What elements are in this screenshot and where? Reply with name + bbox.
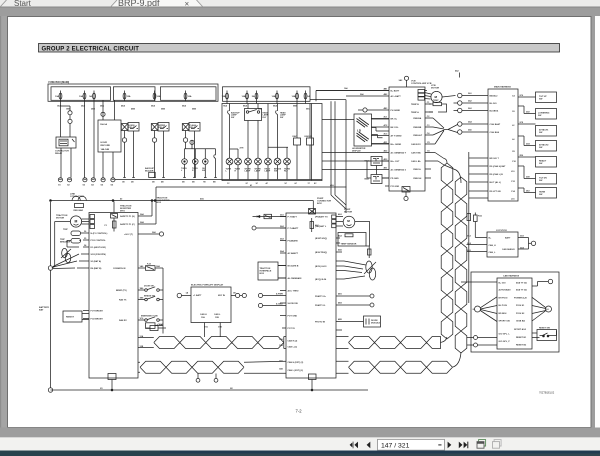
svg-text:F1/T BRUSH: F1/T BRUSH [91,310,104,312]
indicator lamp L3 [203,149,209,178]
svg-text:BOX: BOX [157,202,162,204]
svg-text:SW: SW [231,117,234,119]
svg-text:10A: 10A [157,95,161,98]
hour recorder stems down [103,152,113,178]
ground terminal row [58,178,115,182]
ready switch [536,157,557,168]
svg-text:BL+ CGT: BL+ CGT [391,161,401,163]
svg-text:RLY: RLY [263,117,267,119]
junction circle J5 [458,130,488,134]
svg-text:3EA: 3EA [100,105,105,108]
junction circle J3 [458,108,488,112]
svg-text:RESET SW: RESET SW [539,328,550,330]
svg-text:7EA: 7EA [223,105,228,108]
svg-text:BOX: BOX [317,203,322,205]
wire CAN into chain A [435,153,444,166]
head lamp switch [276,104,287,121]
svg-text:ACC THRO: ACC THRO [288,289,299,292]
svg-text:BH POGI: BH POGI [499,297,508,299]
U2 left pin labels [279,213,304,372]
svg-text:DOOR SW: DOOR SW [144,286,154,288]
svg-text:POGI S2: POGI S2 [516,313,525,315]
terminal T4 [346,303,374,307]
svg-text:BRMF (TX): BRMF (TX) [116,290,127,292]
trip breaker TB1 [63,229,83,236]
svg-text:10A 0A: 10A 0A [100,123,107,126]
indicator lamp L2 [193,149,199,178]
wire fuse F3 drop [93,101,95,177]
capacitor C4 module [146,323,164,329]
svg-text:(BYQ) 8L34: (BYQ) 8L34 [315,278,327,281]
svg-text:10A: 10A [55,95,59,98]
svg-text:5EA: 5EA [151,105,156,108]
fuse F3 [89,91,95,102]
U2 right pin labels [315,213,343,324]
svg-text:5A: 5A [307,95,310,98]
reset switch [532,328,557,341]
wire fan to battery [53,254,79,269]
svg-text:10A: 10A [292,95,296,98]
U7 right terminals [231,293,246,297]
battery bus wire [50,202,52,388]
drop foot ticks on bus [123,177,217,179]
U3 left pin ticks [316,91,389,187]
svg-text:CONTROLLER VCB: CONTROLLER VCB [411,83,432,85]
battery terminal bottom [48,388,52,392]
U2 left pin ticks [278,217,286,329]
twisted pair chain 1 right [349,337,441,349]
U1 left brush pins [83,311,89,319]
current sensor CS2 [364,261,376,280]
U2 bottom connector [309,374,317,390]
svg-text:POGI S1: POGI S1 [516,305,525,307]
diode at cluster bottom [146,324,166,331]
wire fan U2 to sensors [344,261,366,279]
svg-text:POT GND: POT GND [288,315,298,317]
indicator lamp L1 [182,149,188,178]
horn switch [536,188,557,199]
svg-text:RESIST: RESIST [66,317,75,319]
resistor RESIST [63,311,89,322]
aux terminal A GND [258,302,286,307]
terminal +24V [159,232,163,236]
VCB controller terminal top [399,76,409,87]
svg-text:TEMP: TEMP [433,100,439,102]
svg-text:AC ABATT: AC ABATT [288,252,299,255]
twisted pair chain B vertical [455,177,467,353]
junction wire labels [344,70,473,132]
svg-text:TEMP B: TEMP B [411,104,419,106]
svg-text:2EB: 2EB [91,109,96,111]
U7 CAN drops to chain [204,323,220,338]
svg-text:(24V)ANT L: (24V)ANT L [315,225,327,228]
svg-text:(BYA TRHQ): (BYA TRHQ) [315,251,327,254]
lowering switch [536,109,557,120]
wire U2 chain stubs left [244,337,286,374]
svg-text:CAN H (EXT) (2): CAN H (EXT) (2) [288,361,304,364]
svg-text:CAN L (EXT) (2): CAN L (EXT) (2) [288,369,304,372]
joystick fuse [474,213,487,238]
svg-text:PHATP 03-: PHATP 03- [315,304,326,307]
svg-text:CAN L: CAN L [214,313,221,316]
emergency switch SW3 [141,315,163,321]
cab connector circle left [473,297,498,322]
wire fusebox right riser [316,91,389,102]
svg-text:CAN B 5V: CAN B 5V [411,143,421,146]
junction dots on W1 [50,200,52,202]
twisted pair chain A vertical [441,163,453,339]
chain2 left stubs [138,362,140,372]
svg-text:RESET B2: RESET B2 [516,344,527,346]
current sensor CS1 [61,248,71,262]
svg-text:(BYAT HDQ): (BYAT HDQ) [315,237,327,240]
LD hour meter display [352,114,372,152]
chain B top entry [444,165,461,183]
svg-text:RA6 TX: RA6 TX [119,298,127,301]
svg-text:12A: 12A [140,335,144,338]
svg-text:PCI GND: PCI GND [391,186,400,188]
svg-text:AT T GEND: AT T GEND [391,134,403,137]
svg-text:CONTACTOR: CONTACTOR [70,195,84,198]
wire W2 upper run [156,186,347,188]
svg-text:RLY: RLY [284,171,288,173]
svg-text:CAN L (2): CAN L (2) [288,346,298,349]
svg-text:F+B: F+B [147,264,151,266]
terminal T3 [346,294,374,298]
fuse on U1 top [111,202,118,219]
warning lamp W1 [226,158,233,179]
chain A top entry [444,159,447,164]
svg-text:AVA TT GA: AVA TT GA [516,282,527,285]
twisted pair chain 2 left [140,361,244,373]
backup lamp switch [228,104,241,159]
svg-text:BATAL2: BATAL2 [490,94,499,97]
joystick box U5 [487,232,518,257]
wire CAN bus vertical [468,152,470,303]
svg-text:P-T ABATT: P-T ABATT [288,227,299,230]
cab terminal circle top right [532,279,553,286]
svg-text:BATT: BATT [505,236,511,239]
svg-text:F2A: F2A [478,215,482,218]
main harness connector box U4 [488,89,518,201]
U1 right pins to emergency cluster [138,268,146,320]
fuse F14 [368,246,372,258]
toolbar nav controls [350,439,502,450]
svg-text:70Z7B1EL02: 70Z7B1EL02 [539,391,555,395]
svg-text:MOTOR: MOTOR [344,212,353,214]
svg-text:P1/2 CONTROL: P1/2 CONTROL [91,240,107,242]
lamp group labels [181,168,206,172]
warning lamp W6 [274,158,281,179]
wire panel to controller pin [322,169,367,171]
warning lamp W7 [284,158,291,179]
svg-text:GIO GPL_L: GIO GPL_L [499,333,511,335]
svg-text:POT 5V: POT 5V [288,328,296,330]
wire panel right vertical pair [331,101,346,209]
U3 right pin labels [411,102,431,180]
hour recorder risers [103,101,115,121]
svg-text:TEMP A: TEMP A [411,111,419,114]
fuse F5 [153,91,161,102]
U1 left pin ticks [77,233,89,268]
svg-text:RESET B1: RESET B1 [516,337,527,339]
svg-text:14B: 14B [279,368,283,371]
fuse F8 [242,91,249,102]
svg-text:RA6 RX: RA6 RX [119,319,127,322]
line contactor symbol on W1 [70,193,86,211]
fuse box outer housing [48,84,218,101]
U4 inside right pin numbers [511,94,517,200]
svg-text:GROUP 2 ELECTRICAL CIRCUIT: GROUP 2 ELECTRICAL CIRCUIT [42,47,140,53]
svg-text:RS (CAN L) B: RS (CAN L) B [490,173,504,176]
svg-text:LAMP: LAMP [265,170,271,173]
U4 inside left labels [490,94,507,193]
fuse box section 3 [161,87,217,101]
VCB motor M3 [425,91,443,102]
junction circle J4 [458,122,488,126]
fuse F2 [79,91,86,102]
terminal on riser [101,112,105,116]
fuse F11 [292,91,299,102]
fuse F6 [184,91,192,102]
svg-text:PHOTO IN: PHOTO IN [315,322,326,324]
svg-text:4EB: 4EB [131,108,136,111]
pump motor M2 [343,216,355,228]
fuse box section 4 [223,87,311,102]
battery terminal top [48,266,52,270]
wire fan U3 to junction [433,96,458,145]
svg-text:5EB: 5EB [161,109,166,111]
U7 pin labels [186,292,237,329]
U2 top connector [309,209,316,215]
traction interface box [258,262,286,280]
panel foot tick labels [227,182,317,185]
bottom gray strip [0,428,600,438]
traction motor M1 [52,216,89,268]
chain2 right curve to vertical chain B [453,352,462,367]
tab bar [0,0,600,9]
svg-text:MAIN HARNESS: MAIN HARNESS [494,86,511,89]
svg-text:LAMP: LAMP [255,170,261,173]
svg-text:HOUR: HOUR [101,142,108,144]
attach1 switch [536,126,557,137]
U1 left pin labels [84,231,108,320]
svg-text:ELECTRIC FORKLIFT DISPLAY: ELECTRIC FORKLIFT DISPLAY [191,284,224,287]
ground row tiny labels [58,181,216,187]
diode D3 on P-T BATT [253,214,287,218]
fuse box section 2 [113,87,155,101]
svg-text:SW: SW [539,194,542,196]
hour recorder box [98,120,121,152]
svg-text:PD GND: PD GND [391,178,400,180]
CAN vertical branch pins [469,158,488,198]
wire fuse F1 drop [60,101,62,137]
temp sensor loop [429,100,447,112]
svg-text:41A: 41A [330,184,334,187]
svg-text:BLGBO4: BLGBO4 [490,109,500,112]
svg-text:RELAY: RELAY [159,126,166,129]
twisted pair chain 1 left [154,337,284,349]
svg-text:8EA: 8EA [243,105,248,108]
long bus wire W1 [51,201,314,214]
relay RB2 [365,161,390,184]
junction circle J1 [458,93,488,97]
svg-text:BREAKER: BREAKER [60,240,71,243]
cab connector circle right [532,297,552,321]
svg-text:2G: 2G [473,309,476,311]
svg-text:13A: 13A [201,316,205,319]
cab terminal circles lower [474,336,498,340]
wire chain B into cab box [461,281,497,283]
svg-text:CMB BA: CMB BA [413,117,422,120]
svg-text:N-(F1 CONTROL): N-(F1 CONTROL) [91,233,108,235]
svg-text:JOYSTICK: JOYSTICK [496,230,507,232]
svg-text:BAT: BAT [39,309,44,312]
cab connector box U6 [497,278,532,349]
svg-text:(PT)BATT TX: (PT)BATT TX [315,215,328,218]
temp sensor box [338,233,366,247]
wire feeds into top panel [227,101,306,103]
svg-text:CAN H (2): CAN H (2) [288,340,298,343]
svg-text:6EB: 6EB [192,109,197,111]
left gray margin [0,16,8,428]
U1 right pins safety [138,216,160,234]
U1 right lower pin labels [113,265,161,322]
svg-text:RELAY: RELAY [129,126,136,129]
svg-text:SW: SW [538,115,541,117]
svg-text:SPORT AG2: SPORT AG2 [514,328,527,331]
svg-text:RS LPT GB: RS LPT GB [490,191,502,193]
svg-text:SAFETY P1 (S): SAFETY P1 (S) [120,215,135,218]
svg-text:+24 V (T): +24 V (T) [124,233,133,236]
shield drop S2 [214,374,218,383]
fuse F+B [146,264,164,271]
door switch SW1 [144,286,163,292]
pump controller box U2 [286,213,336,378]
svg-text:+1 BATT: +1 BATT [193,294,202,297]
svg-text:CGH BH4: CGH BH4 [490,131,500,134]
diode module DM1 [344,316,381,327]
svg-text:SAFETY P1 (C): SAFETY P1 (C) [120,223,135,226]
svg-text:CMB SH: CMB SH [413,178,422,180]
svg-text:5A: 5A [89,95,92,98]
svg-text:SPORT GIO: SPORT GIO [499,320,511,322]
wire pump motor loop [355,222,370,247]
lamp feed terminal [190,140,194,144]
svg-text:RECORD: RECORD [101,145,111,147]
svg-text:SW: SW [539,163,542,165]
svg-text:5A: 5A [252,95,255,98]
bottom toolbar [0,437,600,451]
warning lamp W4 [255,158,262,179]
svg-text:CAB HARNESS: CAB HARNESS [503,275,520,278]
svg-text:MOTOR: MOTOR [431,88,440,90]
relay module RY2 [151,123,169,178]
relay K1 line contactor coil [55,137,76,155]
terminal on U3 PH GND [358,108,367,112]
wire U2 chain stubs right [336,337,349,374]
svg-text:15A: 15A [127,95,131,98]
diode block D2 [305,104,314,180]
U4 right pin ticks [518,97,536,193]
svg-text:147 / 321: 147 / 321 [381,443,410,450]
U3 bottom pin terminal [404,192,408,201]
U1 right pin labels [120,213,157,236]
svg-text:CAN L Bk: CAN L Bk [411,160,421,163]
U7 left terminal [177,293,191,297]
svg-text:9EA: 9EA [273,105,278,108]
svg-text:SLOW SW: SLOW SW [288,303,298,305]
svg-text:P-T BATT: P-T BATT [288,215,298,218]
svg-text:AL OMNIBARI: AL OMNIBARI [288,277,302,280]
bottom bus wire [51,389,369,391]
U3 right pin ticks [425,91,438,179]
fuse F9 [252,91,258,102]
svg-text:TEMP SENSOR: TEMP SENSOR [341,244,357,246]
svg-text:DISPLAY: DISPLAY [352,149,361,152]
breaker branch off F1 drop [61,106,73,137]
svg-text:CGH BA4T: CGH BA4T [490,123,501,126]
ground bus line [115,179,222,181]
top gray strip [0,7,600,17]
U4 right wire labels [520,95,531,193]
svg-text:LAMP: LAMP [245,170,251,173]
svg-text:D1 (ASST HOD): D1 (ASST HOD) [91,246,107,249]
svg-text:A GND: A GND [276,302,283,305]
svg-text:POWER A+B: POWER A+B [514,296,527,299]
svg-text:10A: 10A [188,95,192,98]
U5 right wires to shield terminal [518,238,529,250]
wire K1 stems to ground row [61,148,71,178]
svg-text:BL POGI: BL POGI [499,305,508,307]
svg-text:S1/2 (F/W RPM): S1/2 (F/W RPM) [91,254,107,256]
svg-text:CMB ALT: CMB ALT [413,134,423,137]
svg-text:4TH: 4TH [240,146,244,149]
top panel inner divider [311,104,313,181]
svg-text:M: M [75,220,78,224]
fuse box section 1 [51,87,111,101]
U3 top-right connector squares [418,90,425,101]
svg-text:10A: 10A [222,95,226,98]
svg-text:AUTOGBAO: AUTOGBAO [499,289,511,292]
svg-text:GIO GPL_P: GIO GPL_P [499,341,511,343]
shield drop S1 [196,374,200,383]
head lamp relay [245,104,269,159]
chain1 left stubs [138,338,154,348]
svg-text:SW: SW [539,132,542,134]
svg-text:BOX: BOX [260,273,265,275]
svg-text:A PWR: A PWR [276,292,283,295]
warning lamp W2 [235,158,242,179]
lamp feed tie [185,145,216,149]
svg-text:6EA: 6EA [182,105,187,108]
svg-text:SW: SW [274,171,277,173]
svg-text:CMB BB: CMB BB [413,127,422,129]
junction circle J2 [458,101,488,105]
wire panel to LD display [322,119,354,121]
junction dot bottom bus [111,389,113,391]
svg-text:F1/2 BRUSH: F1/2 BRUSH [91,318,104,320]
cab terminal stubs from chain B [467,338,474,346]
svg-text:RELAY: RELAY [55,152,63,155]
svg-text:12B: 12B [140,346,144,348]
wire lamp feed ties [230,104,289,159]
wire safety runs to bus [152,187,156,224]
svg-text:CMB SL: CMB SL [413,169,422,171]
U1 input connector squares [90,215,95,219]
tilt up switch [536,92,557,103]
svg-text:10A: 10A [272,95,276,98]
